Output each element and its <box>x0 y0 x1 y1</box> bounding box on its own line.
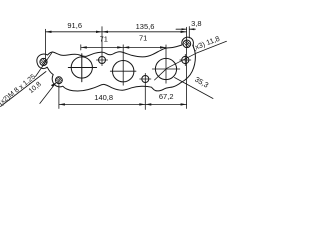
svg-text:140,8: 140,8 <box>94 93 113 102</box>
svg-text:71: 71 <box>100 34 108 43</box>
hole B crosshair + extension line down <box>140 73 151 109</box>
71 arrows <box>81 46 87 48</box>
gasket outline <box>37 37 196 91</box>
71 chain dimension line <box>81 45 166 50</box>
port circle 1 crosshair <box>68 54 96 82</box>
hole T thread hatch <box>185 41 191 48</box>
small hole A top-middle <box>99 57 106 64</box>
threaded hole C left-bottom <box>56 77 63 84</box>
dimension texts <box>0 19 221 107</box>
port circle 2 crosshair <box>110 45 136 85</box>
small hole B bottom-middle <box>142 76 149 83</box>
port circle 3 crosshair <box>152 45 180 83</box>
10,8 leader arrow <box>51 82 56 87</box>
hole L1 thread hatch <box>41 59 46 65</box>
extension line from hole C down <box>58 84 60 109</box>
bottom dim arrows <box>59 103 65 105</box>
top dim arrows <box>46 31 52 33</box>
bottom dimension line 140,8 / 67,2 <box>59 103 187 105</box>
port circle 3 <box>155 58 176 79</box>
hole A crosshair + extension line <box>96 27 107 66</box>
right datum extension line x=186.6 <box>186 27 188 108</box>
svg-text:67,2: 67,2 <box>159 92 174 101</box>
threaded hole L1 left-top <box>40 58 47 65</box>
leader branch through hole L1 <box>36 52 53 77</box>
threaded hole T right-tip <box>183 40 191 48</box>
port circle 2 <box>113 60 134 81</box>
35,3 dimension line <box>175 78 214 99</box>
arrowheads <box>46 28 195 105</box>
3,8 arrows pointing inward from outside <box>182 28 187 30</box>
leader (x3) 11,8 through circle 3 and hole D <box>155 41 227 80</box>
small hole D right <box>182 56 189 63</box>
hole C thread hatch <box>56 77 61 83</box>
svg-text:91,6: 91,6 <box>67 21 82 30</box>
leader 10,8 to hole C <box>40 82 56 103</box>
port circle 1 <box>71 57 92 78</box>
leader underline (x2)M8 <box>1 72 47 107</box>
extension line left datum x=45.5 <box>45 29 47 61</box>
svg-text:3,8: 3,8 <box>191 19 201 28</box>
top dimension line 91,6 / 135,6 <box>46 31 187 33</box>
hole D crosshair <box>180 54 191 65</box>
svg-text:135,6: 135,6 <box>136 22 155 31</box>
3,8 dimension line pieces <box>176 27 195 39</box>
svg-text:71: 71 <box>139 33 147 42</box>
